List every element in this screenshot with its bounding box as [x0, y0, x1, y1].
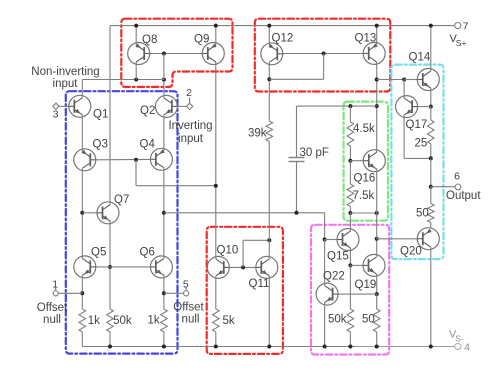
junction Q14 emitter / Q17 base node: [429, 105, 433, 109]
wire 39k up to Q12 collector: [268, 62, 270, 121]
transistor Q1: [69, 95, 109, 120]
wire Q6 emitter down to 1k: [163, 275, 165, 309]
svg-text:Offset: Offset: [37, 302, 68, 314]
V+ supply rail: [110, 25, 454, 27]
svg-text:1k: 1k: [147, 315, 159, 327]
wire Q19 collector up: [376, 239, 378, 257]
transistor Q13: [355, 33, 386, 65]
wire Q8 collector down: [135, 62, 137, 80]
wire Q16 emitter node down to Q19 collector: [376, 213, 378, 239]
svg-text:Offset: Offset: [173, 302, 204, 314]
svg-text:Output: Output: [446, 190, 481, 202]
wire Q17 collector up to Q14 base node: [403, 80, 405, 99]
svg-text:Q16: Q16: [354, 173, 376, 185]
wire Q15 emitter node down to 50k: [349, 265, 351, 309]
svg-text:Q4: Q4: [140, 139, 156, 151]
junction pin5 tap: [162, 291, 166, 295]
resistor R9 50k: [328, 309, 354, 332]
wire Q17 base to Q14 emitter node: [418, 106, 431, 108]
wire Q19 emitter down: [376, 274, 378, 294]
wire base node down-left to Q12 collector: [269, 54, 323, 80]
svg-text:Q22: Q22: [323, 271, 345, 283]
junction Q2 collector node: [162, 78, 166, 82]
wire Q3 base to Q4 base: [96, 158, 151, 160]
wire 1k to V- rail: [81, 332, 83, 347]
blue dash-dot box: differential amplifier: [66, 91, 178, 353]
transistor Q8: [128, 34, 158, 65]
red dash-dot box: Q8/Q9 current mirror: [121, 19, 232, 87]
transistor Q20: [400, 228, 439, 258]
svg-text:3: 3: [53, 109, 59, 121]
svg-text:Inverting: Inverting: [168, 120, 212, 132]
svg-text:39k: 39k: [248, 128, 267, 140]
svg-text:Q20: Q20: [400, 246, 422, 258]
transistor Q11: [249, 256, 278, 290]
wire Q3/Q4 bases to Q9 collector: [136, 160, 216, 186]
wire pin3 to Q1 base: [59, 105, 69, 107]
red dash-dot box: Q10/Q11 current mirror: [207, 227, 283, 354]
wire 25 leads: [430, 107, 432, 159]
resistor R2 1k: [147, 309, 167, 332]
svg-text:Q17: Q17: [406, 119, 428, 131]
svg-text:Q5: Q5: [91, 246, 106, 258]
wire Q13 collector node to Q14 base node: [377, 79, 405, 81]
svg-text:50k: 50k: [328, 314, 347, 326]
svg-text:S+: S+: [456, 38, 467, 48]
svg-text:Q8: Q8: [142, 34, 157, 46]
pin 7 V_S+ terminal: [450, 21, 469, 48]
wire Q8 collector node link: [134, 78, 164, 82]
svg-text:Q12: Q12: [272, 33, 294, 45]
transistor Q2: [140, 95, 177, 117]
wire Q11 emitter to V- rail: [267, 276, 271, 349]
resistor R10 50: [362, 309, 380, 332]
svg-text:50: 50: [362, 314, 375, 326]
wire Q19 base: [350, 264, 363, 266]
wire Q7 collector to V+ rail: [109, 26, 111, 205]
wire pin5 to Q6 emitter line: [164, 292, 184, 294]
wire base node down to collector node: [163, 54, 165, 80]
transistor Q6: [140, 246, 173, 278]
wire Q14 collector to V+ rail: [429, 24, 433, 71]
wire Q9 emitter to V+ rail: [214, 24, 218, 45]
svg-text:Q10: Q10: [217, 245, 239, 257]
svg-text:4.5k: 4.5k: [353, 123, 375, 135]
resistor R11 25: [415, 120, 435, 150]
wire Q16 emitter: [376, 169, 378, 213]
wire Q2 base to pin 2: [177, 105, 186, 107]
svg-text:7.5k: 7.5k: [353, 190, 375, 202]
junction pin1 tap: [80, 291, 84, 295]
svg-text:Q19: Q19: [355, 279, 377, 291]
wire Q12 emitter to V+ rail: [267, 24, 271, 46]
transistor Q14: [409, 52, 440, 91]
transistor Q16: [354, 150, 386, 185]
magenta dash-dot box: class A gain stage: [311, 225, 389, 355]
wire Q8 emitter to V+ rail: [134, 24, 138, 45]
wire base node up-right to Q11 collector: [243, 240, 269, 267]
junction Q13 collector tap to Q14 base: [375, 78, 379, 82]
resistor R7 4.5k: [347, 122, 375, 146]
wire Q1 emitter to Q3 emitter: [81, 115, 83, 152]
wire Q14 emitter down: [430, 88, 432, 107]
junction Q4/Q6 collector node: [162, 211, 166, 215]
V- supply rail: [82, 346, 454, 348]
transistor Q10: [207, 245, 238, 279]
svg-text:input: input: [178, 133, 204, 145]
junction Q9/Q10/Q3-Q4-base node: [214, 184, 218, 188]
svg-text:30 pF: 30 pF: [300, 147, 329, 159]
svg-text:Q1: Q1: [93, 109, 108, 121]
wire Q13 emitter to V+ rail: [375, 24, 379, 45]
svg-text:S-: S-: [455, 333, 464, 343]
svg-text:null: null: [182, 314, 200, 326]
svg-text:Q3: Q3: [93, 139, 108, 151]
junction Q16 collector node: [375, 104, 379, 108]
svg-text:2: 2: [186, 87, 192, 99]
wire Q5 emitter down to 1k: [81, 275, 83, 309]
transistor Q22: [316, 271, 345, 306]
svg-text:Non-inverting: Non-inverting: [31, 66, 99, 78]
transistor Q7: [97, 194, 129, 224]
green dash-dot box: output bias / VBE multiplier: [344, 102, 388, 221]
wire Q22 emitter to V- rail: [323, 303, 327, 349]
wire Q10 emitter down to 5k: [215, 276, 217, 309]
junction 4.5k top: [348, 104, 352, 108]
wire Q10 base to Q11 base: [229, 266, 256, 268]
junction Q15 base tap: [323, 238, 327, 242]
junction Q19 collector / Q20 base node: [375, 237, 379, 241]
wire Q4 collector down to Q6 collector: [163, 168, 165, 259]
resistor R1 1k: [79, 309, 100, 332]
wire Q16 base: [350, 160, 363, 162]
wire Q11 collector up to 39k: [268, 142, 270, 259]
wire down to output tap: [430, 158, 432, 186]
wire Q2 emitter to Q4 emitter: [163, 115, 165, 151]
resistor R4 5k: [213, 309, 235, 332]
wire Q3 collector down to Q5 collector: [81, 168, 83, 258]
svg-text:Q11: Q11: [249, 278, 270, 290]
wire Q20 base: [377, 238, 418, 240]
svg-text:50k: 50k: [113, 315, 132, 327]
junction output node: [429, 185, 433, 189]
wire 1k to V- rail: [162, 332, 166, 349]
svg-text:Q13: Q13: [355, 33, 377, 45]
wire 5k to V- rail: [214, 332, 218, 349]
wire cap top to green box node: [297, 105, 377, 107]
pin 6 output terminal: [431, 171, 482, 203]
junction Q16 base node: [348, 159, 352, 163]
transistor Q4: [140, 139, 173, 171]
junction 7.5k bottom: [348, 211, 352, 215]
svg-text:1k: 1k: [88, 315, 100, 327]
junction Q3-Q7 base tap: [80, 211, 84, 215]
svg-text:input: input: [53, 78, 79, 90]
junction Q11 collector node: [267, 238, 271, 242]
resistor R5 39k: [248, 121, 273, 142]
wire 7.5k bottom to Q16 emitter: [350, 212, 376, 214]
svg-text:4: 4: [464, 342, 470, 354]
wire Q22 base to Q19 emitter line: [338, 293, 377, 295]
svg-text:Q6: Q6: [140, 246, 155, 258]
wire 4.5k leads: [349, 106, 351, 161]
pin 3 non-inverting input terminal: [53, 103, 60, 120]
pin 1 offset null terminal: [37, 278, 68, 326]
junction Q10/Q11 base node: [241, 265, 245, 269]
resistor R8 7.5k: [347, 184, 374, 207]
wire Q2 collector up: [163, 80, 165, 98]
pin 5 offset null terminal: [173, 278, 204, 325]
svg-text:Q7: Q7: [114, 194, 129, 206]
junction 25 bottom / Q17 emitter: [429, 156, 433, 160]
red dash-dot box: Q12/Q13 current mirror: [255, 19, 390, 92]
svg-text:50: 50: [416, 208, 429, 220]
wire pin1 to Q5 emitter line: [58, 292, 82, 294]
wire to Q7 base: [82, 212, 97, 214]
wire Q9 collector down to Q10 collector: [215, 62, 217, 259]
svg-text:6: 6: [454, 171, 460, 183]
transistor Q17: [396, 96, 428, 131]
cyan dash-dot box: output stage: [391, 65, 443, 260]
capacitor C1 30 pF: [289, 106, 329, 213]
wire Q7 emitter down to 50k: [109, 221, 111, 309]
svg-text:null: null: [43, 314, 61, 326]
wire Q17 emitter down-right to 25 bottom: [404, 115, 431, 158]
wire Q8 base to Q9 base: [150, 53, 203, 55]
svg-text:7: 7: [463, 21, 469, 33]
transistor Q3: [74, 139, 108, 171]
junction cap bottom node: [295, 211, 299, 215]
wire Q15-base column down to Q22 collector: [324, 240, 326, 286]
junction Q19 emitter / Q22 base node: [375, 292, 379, 296]
wire Q20 collector to V- rail: [429, 247, 433, 348]
junction Q12 collector/base-loop node: [267, 77, 271, 81]
wire Q13 collector down to Q16 collector: [376, 62, 378, 152]
transistor Q15: [327, 229, 359, 263]
svg-text:Q15: Q15: [327, 251, 349, 263]
wire Q5 base to Q6 base: [96, 266, 151, 268]
wire 50k to V- rail: [108, 332, 112, 349]
wire Q15 base: [325, 239, 337, 241]
resistor R3 50k: [107, 309, 132, 332]
junction Q12/Q13 base node: [322, 52, 326, 56]
junction Q14 base node: [402, 78, 406, 82]
wire 50k to V- rail: [348, 332, 352, 349]
wire Q12 base to Q13 base: [283, 53, 363, 55]
junction Q3/Q4 base node: [134, 158, 138, 162]
wire Q15 emitter down: [349, 248, 351, 265]
svg-text:Q9: Q9: [194, 34, 209, 46]
wire Q1 collector up-right to Q8 collector node: [82, 80, 136, 98]
wire Q14 base: [404, 79, 417, 81]
junction Q8/Q9 base node: [162, 52, 166, 56]
svg-text:5: 5: [183, 278, 189, 290]
junction Q7 emitter / Q5 Q6 bases: [108, 265, 112, 269]
svg-text:1: 1: [52, 278, 58, 290]
junction Q15 emitter / Q19 base node: [348, 263, 352, 267]
transistor Q9: [194, 34, 224, 65]
wire Q15 collector up: [349, 213, 351, 231]
wire 50 leads: [430, 187, 432, 228]
wire Q19 emitter node down to 50: [376, 294, 378, 309]
transistor Q5: [74, 246, 107, 278]
transistor Q12: [261, 33, 293, 65]
label Non-inverting input: [31, 66, 99, 90]
junction Q16 emitter node: [375, 211, 379, 215]
svg-text:Q14: Q14: [409, 52, 431, 64]
svg-text:5k: 5k: [223, 315, 235, 327]
wire 50 to V- rail: [375, 332, 379, 349]
pin 2 inverting input terminal: [186, 87, 193, 110]
resistor R12 50: [416, 204, 434, 223]
svg-text:Q2: Q2: [140, 105, 155, 117]
label Inverting input: [168, 120, 212, 145]
pin 4 V_S- terminal: [449, 329, 470, 354]
wire Q4-Q6 node to cap bottom and Q15 base: [164, 213, 325, 240]
wire 7.5k leads: [349, 161, 351, 213]
svg-text:25: 25: [415, 138, 428, 150]
transistor Q19: [355, 254, 386, 291]
